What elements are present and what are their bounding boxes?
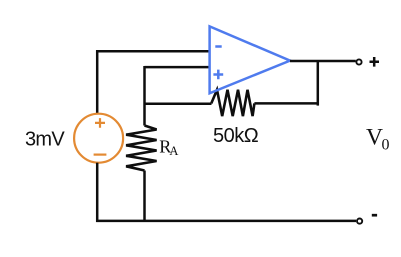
op-amp plus input sign [213, 70, 223, 80]
wire noninverting-input horizontal [145, 66, 210, 69]
terminal minus ring [357, 219, 362, 224]
wire inverting-input horizontal [96, 50, 210, 53]
label minus at output [372, 214, 377, 217]
op-amp U1 triangle [210, 26, 290, 93]
svg-text:V: V [366, 124, 383, 150]
wire output [290, 60, 356, 63]
svg-text:3mV: 3mV [25, 128, 65, 150]
wire middle vertical input node to RA top [143, 66, 146, 126]
wire feedback vertical to output [317, 61, 320, 106]
svg-text:50kΩ: 50kΩ [213, 125, 259, 147]
wire source bottom to ground rail [96, 163, 99, 222]
terminal plus ring [356, 59, 361, 64]
resistor RA zigzag [126, 126, 157, 171]
wire RA bottom to rail [143, 171, 146, 221]
wire feedback left segment [145, 103, 212, 106]
wire bottom rail [96, 220, 356, 223]
wire left vertical from corner to source top [96, 50, 99, 114]
wire feedback right segment [254, 102, 317, 105]
voltage source minus sign [94, 154, 107, 156]
svg-text:0: 0 [382, 137, 390, 154]
svg-text:A: A [169, 144, 178, 158]
voltage source V1 circle [74, 114, 123, 163]
resistor 50k zigzag [211, 90, 254, 116]
op-amp minus input sign [215, 45, 221, 48]
label plus at output [370, 57, 380, 67]
voltage source plus sign [95, 118, 105, 128]
